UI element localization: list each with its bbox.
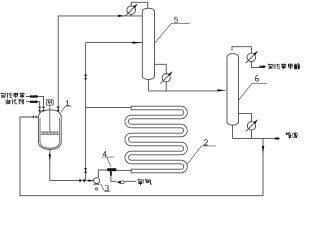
text catalyst (hand-drawn hanzi) <box>6 99 24 104</box>
wire recycle into reactor <box>37 116 39 118</box>
reactor agitator shaft <box>49 105 51 132</box>
wire catalyst feed line <box>26 102 40 107</box>
wire riser top to column 5 feed <box>86 42 143 44</box>
wire chlorotoluene feed line <box>26 96 44 106</box>
regulator D column6 bottoms <box>246 119 258 131</box>
arrow column 6 feed <box>217 89 226 91</box>
wire condenser loop top into column 5 <box>131 2 148 8</box>
wire condenser stem bottom <box>130 14 132 16</box>
valve bowtie drain <box>79 179 84 183</box>
arrow product chlorobenzaldehyde <box>259 65 266 68</box>
column 5 <box>142 8 154 79</box>
arrow column 5 feed <box>132 42 142 44</box>
pump 3 <box>94 178 100 184</box>
wire overhead product line <box>251 62 259 68</box>
wire coil outlet horizontal <box>86 106 132 108</box>
wire recycle line bottom loop <box>20 117 263 196</box>
wire column 6 bottoms line to slurry outlet <box>233 125 275 138</box>
check valve oxygen line <box>117 181 121 184</box>
valve bowtie recycle inlet <box>33 116 37 119</box>
column 6 <box>227 54 239 126</box>
arrow catalyst feed <box>30 100 39 104</box>
wire column 5 bottoms to column 6 feed <box>148 79 219 91</box>
arrow vapor line <box>118 15 126 17</box>
wire pump discharge to tee <box>98 170 107 178</box>
serpentine photoreactor coil 2 <box>127 106 186 173</box>
valve X chlorotoluene feed <box>42 107 45 112</box>
reactor inner jacket wall <box>40 118 60 149</box>
pump inlet arrow <box>88 180 93 182</box>
wire coil outlet riser and bypass vertical <box>85 43 87 181</box>
label digit 2 <box>187 140 216 165</box>
wire regulator D top stem from column 6 side <box>239 114 252 122</box>
arrow slurry outlet <box>275 137 280 140</box>
wire oxygen line from tee stem down and right <box>111 171 117 181</box>
wire regulator D bottom stem <box>251 130 253 139</box>
label digit 3 <box>101 184 111 191</box>
wire regulator B bottom stem <box>165 82 167 91</box>
wire vapor line reactor top to column 5 <box>58 16 142 113</box>
text oxygen (hand-drawn hanzi) <box>138 179 152 185</box>
reactor sparger band <box>41 132 59 134</box>
arrow chlorotoluene feed <box>30 95 39 99</box>
label digit 1 <box>61 101 72 113</box>
wire oxygen line after check valve to label <box>124 180 136 182</box>
label digit 4 <box>102 151 114 167</box>
text slurry (hand-drawn hanzi) <box>286 132 298 138</box>
tee mixer 4 <box>107 168 116 171</box>
reactor vessel 1 outer shell <box>38 110 61 150</box>
wire reactor bottom downcomer <box>50 148 80 180</box>
wire tee to coil inlet <box>116 169 131 171</box>
valve X catalyst feed <box>38 107 41 112</box>
regulator B column5 side <box>160 71 172 83</box>
motor M box <box>46 100 53 105</box>
wire column 6 overhead loop <box>232 47 251 54</box>
regulator A condenser <box>125 4 137 16</box>
label digit 5 <box>155 17 190 43</box>
wire feed valve stubs into dome <box>40 111 44 115</box>
label digit 6 <box>238 75 267 101</box>
wire regulator B top stem from column 5 side <box>154 64 166 74</box>
regulator C column6 overhead <box>246 51 258 63</box>
arrow recycle down <box>262 146 265 153</box>
valve X riser upper <box>84 75 87 80</box>
text chlorotoluene (hand-drawn hanzi) <box>1 93 25 99</box>
valve X reactor vent <box>57 107 60 112</box>
arrow reactor downcomer <box>49 154 51 161</box>
text chlorobenzaldehyde (hand-drawn hanzi) <box>268 63 300 69</box>
valve X bypass lower <box>84 168 87 173</box>
wire suction line bowtie to pump <box>85 180 94 182</box>
